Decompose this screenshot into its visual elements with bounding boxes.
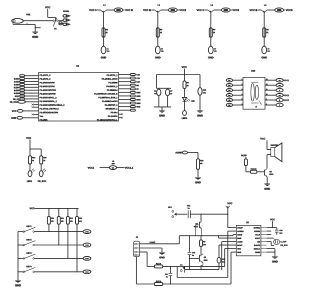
capacitor C10 (198, 75, 206, 111)
resistor RP8 (20, 95, 25, 97)
MCU left pin wire 2 (25, 78, 39, 80)
net label ILED5 (14, 90, 19, 91)
capacitor C11 (165, 266, 172, 284)
MCU right pin wire 4 (119, 84, 131, 86)
power flag VCC (45, 6, 56, 21)
U10 left pin 6 (226, 103, 243, 106)
capacitor C4 (262, 46, 270, 54)
resistor RP2 (20, 78, 25, 80)
wire J1 pin4 (136, 257, 154, 284)
net label RE_SC (13, 98, 19, 100)
net label C20 (136, 74, 139, 75)
wire key bus (17, 232, 18, 281)
net label NC (136, 85, 139, 86)
U10 left pin 5 (226, 98, 243, 101)
J1 pin 4 (135, 254, 140, 256)
capacitor C16 (275, 228, 282, 235)
U5 right pin 5 (261, 241, 267, 243)
resistor R22 pullup (66, 208, 72, 259)
U10 right pin 11 (265, 88, 283, 92)
wire J-OSC to U5 (179, 235, 236, 237)
net label VCC1 (88, 167, 94, 169)
switch KEY1 (23, 226, 36, 233)
U5 right pin 1 (261, 227, 267, 229)
wire down (210, 12, 212, 46)
resistor RP3 (20, 81, 25, 83)
label LED (191, 100, 194, 101)
wire Q3 emitter to ground (266, 177, 268, 184)
net label ILED3 (14, 84, 19, 85)
MCU right pin wire 5 (119, 88, 131, 90)
resistor R16 (197, 159, 204, 170)
resistor R2 (102, 28, 108, 37)
wire to base (257, 171, 265, 173)
net label C22 (136, 81, 139, 82)
MCU right pin wire 1 (119, 74, 131, 76)
MCU left pin wire 3 (25, 81, 39, 83)
resistor RQ7 (131, 95, 136, 97)
power pin GND with bead L7 (11, 116, 38, 119)
MCU right pin wire 11 (119, 109, 131, 111)
wire key row (18, 231, 83, 233)
U10 right pin 13 (265, 78, 289, 82)
power flag VCC (267, 219, 277, 228)
microphone MK1 (168, 207, 176, 218)
ground (155, 45, 160, 58)
connector KY3 (83, 257, 91, 261)
transistor Q3 (265, 168, 274, 176)
resistor R19 (250, 168, 257, 173)
net label GND (136, 99, 140, 100)
net label VCC2 (179, 9, 186, 11)
U10 left pin 1 (226, 79, 243, 82)
ground (159, 111, 165, 117)
net label AGND (175, 152, 182, 154)
resistor R18 (244, 157, 247, 166)
wire (204, 9, 232, 11)
ground (197, 111, 203, 117)
net label GND (136, 95, 140, 96)
net label ILED6 (14, 93, 19, 94)
wire (197, 169, 199, 177)
LED D2 (28, 164, 34, 177)
net label VCC B (250, 9, 258, 11)
wire down (157, 12, 159, 46)
ferrite bead L4 (264, 4, 283, 12)
capacitor C1 (101, 46, 109, 54)
junction entry (101, 10, 107, 13)
net label C21 (136, 78, 139, 79)
resistor RQ3 (131, 81, 136, 83)
wire (100, 167, 125, 169)
net label PB_SCK (38, 180, 46, 182)
connector KY1 (83, 230, 91, 234)
power pin VCC with bead L6 (12, 110, 39, 113)
microcontroller U2 (39, 65, 119, 121)
resistor R5 (263, 28, 269, 37)
MCU right pin wire 2 (119, 77, 131, 79)
MCU left pin wire 9 (25, 98, 39, 100)
wire branch (30, 149, 41, 156)
J1 pin 1 (135, 243, 140, 245)
U10 right pin 12 (265, 83, 283, 87)
net label VCC B (143, 9, 151, 11)
wire key row (18, 257, 83, 259)
resistor RP9 (20, 98, 25, 100)
wire power rail (157, 74, 201, 75)
no-connect pin X3 (32, 113, 39, 115)
wire J1 pin2 to ground (140, 248, 162, 252)
resistor RP1 (20, 75, 25, 77)
LED D1 (182, 88, 189, 101)
ground (264, 184, 270, 190)
switch KEY2 (23, 239, 36, 246)
U5 right pin wires 2-3 (267, 231, 272, 235)
U5 pin name text (237, 227, 260, 253)
U10 left pin 4 (226, 94, 243, 97)
MCU right pin wire 3 (119, 81, 131, 83)
transistor Q4 (194, 214, 202, 236)
optocoupler U10 (243, 70, 265, 109)
wire VCC rail to U5 pin1 (228, 214, 237, 227)
resistor RQ4 (131, 84, 136, 86)
ferrite bead L1 (103, 4, 122, 12)
capacitor C2 (155, 46, 163, 54)
net label VCC 0 (197, 9, 204, 11)
resistor R1 (59, 22, 62, 25)
wire (97, 9, 125, 11)
ground (32, 32, 38, 38)
U5 right pin 7 (261, 248, 267, 250)
resistor R3 (156, 28, 162, 37)
ground (159, 252, 165, 258)
resistor R20 pullup (47, 208, 53, 232)
net label LED1 (27, 180, 32, 181)
MCU right pin wire 10 (119, 106, 131, 108)
resistor RQ1 (131, 74, 136, 76)
U5 ground pins (267, 249, 276, 257)
no-connect pin X1 (32, 104, 39, 106)
net label VCC3 (232, 9, 239, 11)
resistor R7 (183, 75, 189, 89)
crystal X1 (267, 238, 288, 246)
wire (177, 213, 188, 215)
audio codec U5 (236, 222, 261, 256)
power flag VCC (30, 208, 35, 210)
capacitor C14 (217, 245, 225, 270)
ferrite bead L8 (109, 161, 116, 170)
LED D3 (39, 164, 46, 177)
ground (101, 45, 106, 58)
MCU left pin wire 1 (25, 75, 39, 77)
resistor RQ5 (131, 88, 136, 90)
MCU left pin wire 5 (25, 86, 39, 88)
ground (208, 45, 213, 58)
wire (188, 153, 199, 159)
resistor RQ2 (131, 77, 136, 79)
resistor R13 (29, 149, 36, 164)
wire (190, 214, 228, 215)
resistor R9 (200, 236, 206, 247)
wire switch to header (58, 21, 63, 24)
no-connect pin X2 (32, 106, 39, 108)
net label RC5P (241, 155, 246, 156)
connector LED1 (182, 102, 187, 119)
bead L9 (182, 151, 187, 154)
MCU right pin wire 7 (119, 95, 131, 97)
wire (246, 166, 250, 172)
no-connect pin (119, 113, 124, 115)
junction entry (155, 10, 161, 13)
switch KEY3 (23, 252, 36, 259)
U5 right pin 2 (261, 230, 267, 232)
resistor R14 (40, 156, 47, 164)
wire key row (18, 244, 83, 246)
J1 pin 2 (135, 247, 140, 249)
net label VDD (136, 106, 140, 107)
U10 internal symbol (251, 82, 262, 107)
resistor RQ8 (131, 98, 136, 100)
U5 right pin 6 (261, 244, 267, 246)
resistor R12 (154, 281, 162, 286)
no-connect pin (119, 117, 124, 119)
power flag VCC (182, 66, 187, 74)
ferrite bead L2 (158, 4, 177, 12)
wire CN1 to switch (23, 20, 53, 22)
MCU left pin wire 7 (25, 92, 39, 94)
power flag VCC (26, 137, 31, 149)
U10 left pin 2 (226, 84, 243, 87)
U5 right pin 8 (261, 251, 267, 253)
power flag VCC (226, 203, 232, 215)
net label GND (136, 103, 140, 104)
capacitor C3 (208, 46, 216, 54)
U10 right pin 10 (265, 93, 289, 97)
MCU left pin wire 4 (25, 83, 39, 85)
resistor RQ10 (131, 106, 136, 108)
wire down (263, 12, 265, 46)
ground (195, 177, 201, 183)
power flag VCC (260, 138, 267, 150)
wire (258, 9, 286, 11)
U5 right pin 4 (261, 237, 267, 239)
wire buzzer to Q3 (266, 155, 268, 169)
resistor RP5 (20, 86, 25, 88)
wire ground rail (185, 269, 219, 270)
connector J1 (134, 236, 140, 256)
MCU pin name text columns (40, 74, 118, 120)
resistor R11 (154, 263, 162, 268)
net label IKEY (15, 96, 19, 97)
ground (261, 45, 266, 58)
wire CN1 pin2 to ground (27, 24, 41, 32)
connector KF301 (63, 11, 71, 26)
capacitor C13 (188, 236, 195, 270)
net label VCC B (125, 9, 133, 11)
microphone MK2 (180, 264, 185, 273)
U5 right pin 3 (261, 234, 267, 236)
switch KEY4 (23, 266, 36, 273)
resistor RP4 (20, 83, 25, 85)
junction entry (208, 10, 214, 13)
MCU left pin wire 6 (25, 89, 39, 91)
buzzer LS1 (267, 143, 282, 162)
MCU right pin wire 8 (119, 98, 131, 100)
resistor RQ6 (131, 91, 136, 93)
net label VCC5 (286, 9, 293, 11)
wire key row (18, 271, 83, 273)
capacitor C7 (166, 89, 173, 96)
wire stair to U5 (163, 231, 237, 284)
U10 left pin 3 (226, 89, 243, 92)
capacitor C12 (187, 205, 190, 218)
wire down (103, 12, 105, 46)
wire J-OSC net (140, 236, 180, 244)
wire VCC rail (35, 207, 79, 209)
net label PB_SCK (10, 101, 18, 103)
net label ILED2 (14, 81, 19, 82)
connector KY4 (83, 270, 91, 274)
wire J1 pin3 (140, 252, 155, 266)
resistor RQ11 (131, 109, 136, 111)
resistor R4 (209, 28, 215, 37)
net label X1 (136, 88, 138, 89)
junction entry (261, 10, 267, 13)
transistor Q5 (189, 246, 208, 269)
resistor RP6 (20, 89, 25, 91)
MCU right pin wire 6 (119, 91, 131, 93)
net label VCC1.1 (125, 167, 133, 169)
ground (15, 280, 21, 286)
bead FB1 (18, 100, 26, 103)
U10 right pin 8 (265, 103, 283, 107)
wire left branch (154, 75, 171, 111)
connector KY2 (83, 243, 91, 247)
net label GND (136, 92, 140, 93)
MCU right pin wire 9 (119, 102, 131, 104)
resistor R21 pullup (57, 208, 63, 246)
switch S1 (53, 18, 58, 30)
connector CN1 (DC power jack) (12, 14, 31, 25)
resistor RQ9 (131, 102, 136, 104)
ground (272, 257, 278, 263)
net label ILED4 (14, 87, 19, 88)
MCU left pin wire 10 (25, 101, 39, 103)
net label VCC 0 (89, 9, 96, 11)
resistor RP7 (20, 92, 25, 94)
wire (151, 9, 179, 11)
MCU left pin wire 8 (25, 95, 39, 97)
capacitor C6 (154, 89, 161, 96)
resistor R23 pullup (76, 208, 82, 273)
J1 pin 3 (135, 251, 140, 253)
U10 right pin 9 (265, 98, 289, 102)
net label ILED1 (14, 78, 19, 79)
ferrite bead L3 (211, 4, 230, 12)
